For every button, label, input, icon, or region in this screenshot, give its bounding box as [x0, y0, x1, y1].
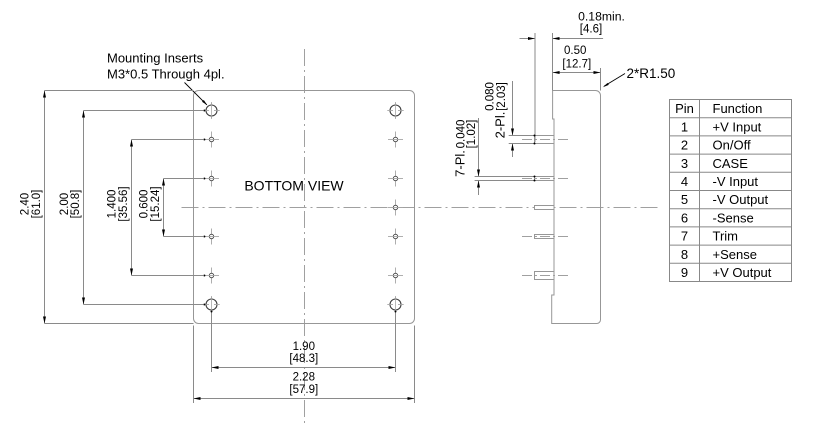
svg-text:8: 8 — [681, 247, 688, 262]
module body outline (bottom view) — [194, 91, 415, 324]
svg-text:[1.02]: [1.02] — [466, 120, 478, 149]
pin hole right column row5 — [388, 268, 403, 284]
svg-text:2-Pl.: 2-Pl. — [493, 112, 508, 139]
vertical centerline of bottom view — [304, 49, 306, 427]
dimension 0.18min [4.6] pin length — [520, 10, 625, 142]
pin hole left column row2 — [204, 171, 219, 187]
table row pin 7 — [681, 229, 738, 244]
dimension 0.080 [2.03] 2-Pl pin thickness — [485, 81, 536, 157]
pin hole left column row1 — [204, 132, 219, 148]
svg-text:0.600: 0.600 — [139, 190, 151, 219]
svg-text:9: 9 — [681, 265, 688, 280]
BOTTOM VIEW label — [244, 178, 344, 194]
pin hole right column row2 — [388, 171, 403, 187]
mounting insert top-right — [387, 102, 403, 118]
svg-text:4: 4 — [681, 174, 688, 189]
svg-text:+Sense: +Sense — [713, 247, 757, 262]
svg-text:CASE: CASE — [713, 156, 749, 171]
svg-text:[35.56]: [35.56] — [118, 186, 130, 221]
svg-text:1.400: 1.400 — [107, 190, 119, 219]
svg-text:+V Input: +V Input — [713, 119, 762, 134]
svg-text:[15.24]: [15.24] — [150, 186, 162, 221]
svg-text:0.18min.: 0.18min. — [578, 10, 625, 24]
dimension 2.00 [50.8] — [59, 110, 205, 306]
svg-text:[50.8]: [50.8] — [70, 190, 82, 219]
mounting insert top-left — [203, 102, 219, 118]
svg-text:2.40: 2.40 — [20, 193, 32, 215]
svg-text:BOTTOM VIEW: BOTTOM VIEW — [244, 178, 344, 194]
horizontal centerline across both views — [182, 207, 659, 209]
svg-text:-V Input: -V Input — [713, 174, 759, 189]
table header row — [675, 101, 762, 116]
pin hole right column row1 — [388, 132, 403, 148]
svg-text:+V Output: +V Output — [713, 265, 772, 280]
side pin row4 — [522, 235, 571, 239]
table row pin 6 — [681, 210, 754, 225]
svg-text:7: 7 — [681, 229, 688, 244]
svg-text:2*R1.50: 2*R1.50 — [627, 66, 676, 81]
svg-text:[57.9]: [57.9] — [289, 384, 318, 396]
table row pin 8 — [681, 247, 757, 262]
svg-text:7-Pl.: 7-Pl. — [452, 150, 467, 177]
dimension 2.40 [61.0] — [20, 91, 194, 324]
svg-text:1: 1 — [681, 119, 688, 134]
leader to top-left mounting insert — [185, 83, 208, 106]
mounting inserts note — [107, 51, 225, 82]
svg-text:3: 3 — [681, 156, 688, 171]
dimension 0.600 [15.24] — [139, 178, 206, 238]
svg-text:[48.3]: [48.3] — [289, 353, 318, 365]
table row pin 2 — [681, 138, 751, 153]
side view body outline — [552, 91, 601, 324]
table row pin 9 — [681, 265, 772, 280]
pin hole right column row3 center — [388, 200, 403, 216]
table row pin 3 — [681, 156, 748, 171]
svg-text:2.28: 2.28 — [293, 371, 315, 383]
svg-text:5: 5 — [681, 192, 688, 207]
pin hole left column row4 — [204, 229, 219, 245]
svg-text:-Sense: -Sense — [713, 210, 754, 225]
svg-text:On/Off: On/Off — [713, 138, 751, 153]
svg-text:Pin: Pin — [675, 101, 694, 116]
svg-text:6: 6 — [681, 210, 688, 225]
table row pin 1 — [681, 119, 762, 134]
pin hole left column row5 — [204, 268, 219, 284]
pin hole right column row4 — [388, 229, 403, 245]
side pin row3 — [535, 206, 555, 210]
dimension 1.90 [48.3] — [211, 311, 397, 373]
label 2*R1.50 corner radius — [603, 66, 675, 87]
dimension 1.400 [35.56] — [107, 139, 206, 277]
svg-text:Mounting Inserts: Mounting Inserts — [107, 51, 204, 66]
dimension 2.28 [57.9] — [194, 326, 415, 404]
table row pin 4 — [681, 174, 759, 189]
svg-text:2.00: 2.00 — [59, 193, 71, 215]
svg-text:-V Output: -V Output — [713, 192, 769, 207]
mounting insert bottom-right — [387, 296, 403, 312]
side pin row2 — [522, 177, 571, 181]
dimension 0.040 [1.02] 7-Pl pin thickness — [452, 118, 535, 195]
side pin row1 (0.080 thick) — [522, 136, 571, 144]
table row pin 5 — [681, 192, 769, 207]
svg-text:1.90: 1.90 — [293, 341, 315, 353]
svg-text:0.080: 0.080 — [485, 82, 497, 111]
svg-text:Trim: Trim — [713, 229, 739, 244]
side pin row5 (0.080 thick) — [522, 272, 571, 280]
svg-text:[4.6]: [4.6] — [580, 24, 602, 36]
pin function table frame — [670, 100, 792, 282]
svg-text:Function: Function — [713, 101, 763, 116]
mounting insert bottom-left — [203, 296, 219, 312]
svg-text:[61.0]: [61.0] — [31, 190, 43, 219]
svg-text:[12.7]: [12.7] — [562, 59, 591, 71]
svg-text:0.50: 0.50 — [564, 45, 586, 57]
svg-text:M3*0.5 Through 4pl.: M3*0.5 Through 4pl. — [107, 67, 225, 82]
dimension 0.50 [12.7] body width — [553, 45, 601, 90]
svg-text:[2.03]: [2.03] — [496, 82, 508, 111]
svg-text:2: 2 — [681, 138, 688, 153]
